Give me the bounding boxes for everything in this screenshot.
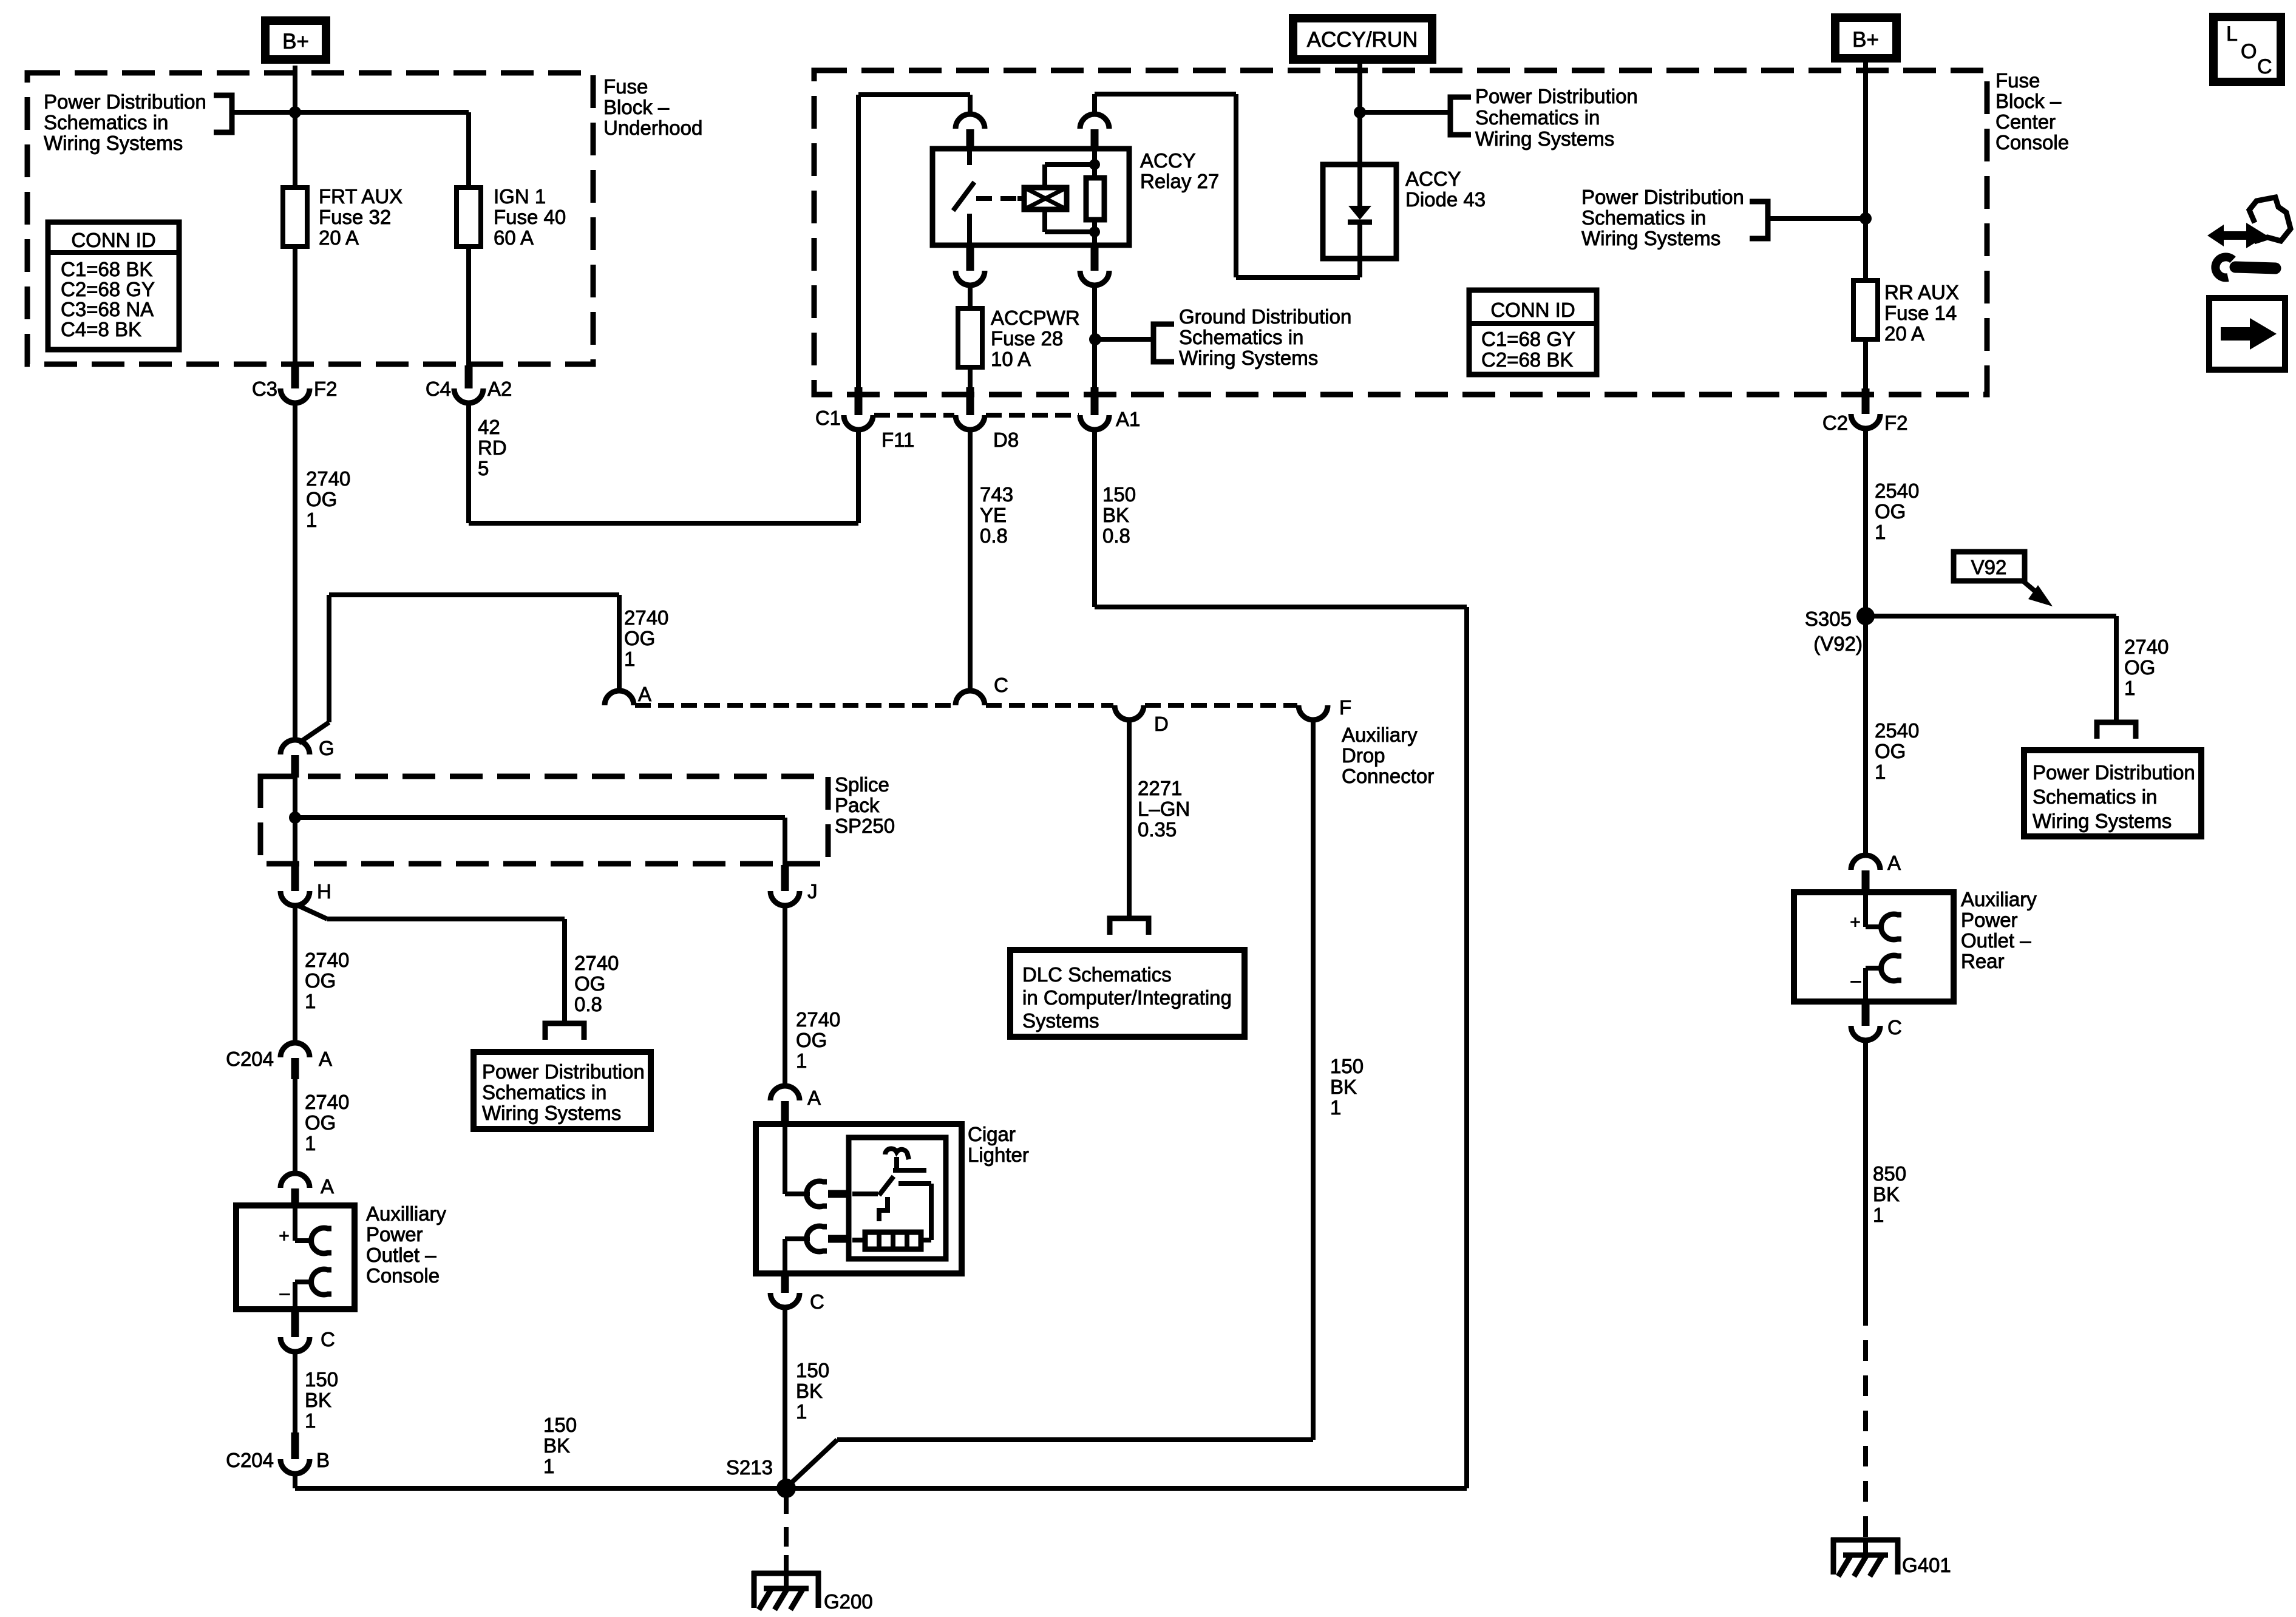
wire top horizontal to relay pin 1 <box>858 92 970 97</box>
splice pack SP250 dashed box <box>260 776 828 864</box>
wire through splice pack <box>293 778 297 866</box>
splice S305 (V92) <box>1856 607 1875 625</box>
svg-text:G: G <box>319 737 335 759</box>
svg-text:0.35: 0.35 <box>1138 818 1177 841</box>
svg-text:A: A <box>638 683 651 705</box>
svg-text:60 A: 60 A <box>494 226 534 249</box>
svg-text:1: 1 <box>624 648 635 670</box>
wire junction to FRT AUX fuse <box>293 112 297 188</box>
svg-text:0.8: 0.8 <box>980 524 1008 547</box>
svg-text:A: A <box>319 1048 332 1070</box>
svg-text:20 A: 20 A <box>1884 322 1924 345</box>
ground G401 <box>1831 1537 1900 1543</box>
svg-text:Auxiliary: Auxiliary <box>1961 888 2037 910</box>
svg-text:C204: C204 <box>226 1449 274 1471</box>
wire 850 BK down <box>1863 1040 1868 1305</box>
svg-text:0.8: 0.8 <box>574 993 602 1015</box>
wire ACCY/RUN down <box>1357 64 1362 164</box>
terminal to DLC <box>1110 918 1149 935</box>
svg-text:2740: 2740 <box>574 952 619 974</box>
svg-text:Schematics in: Schematics in <box>1179 326 1303 348</box>
svg-text:RD: RD <box>478 436 507 459</box>
svg-text:Auxilliary: Auxilliary <box>366 1202 447 1225</box>
svg-text:2740: 2740 <box>2124 636 2169 658</box>
console outlet minus terminal <box>295 1280 313 1284</box>
svg-text:BK: BK <box>1873 1183 1900 1205</box>
svg-text:C: C <box>994 674 1008 696</box>
relay bottom pins <box>966 245 974 271</box>
svg-text:1: 1 <box>1330 1096 1341 1119</box>
svg-text:2540: 2540 <box>1875 719 1919 742</box>
svg-text:C4: C4 <box>426 378 451 400</box>
svg-text:Power: Power <box>366 1223 423 1246</box>
svg-text:Fuse: Fuse <box>1995 69 2040 92</box>
svg-text:Power Distribution: Power Distribution <box>44 90 206 113</box>
svg-text:Fuse: Fuse <box>603 75 648 98</box>
svg-text:A: A <box>321 1175 334 1198</box>
conn id table center console <box>1469 290 1597 375</box>
svg-text:Rear: Rear <box>1961 950 2005 972</box>
svg-text:L: L <box>2226 22 2238 46</box>
wire 2740 OG down from C3 <box>293 403 297 741</box>
svg-text:Center: Center <box>1995 110 2056 133</box>
svg-text:Wiring Systems: Wiring Systems <box>482 1102 621 1124</box>
relay resistor <box>1086 178 1104 220</box>
power symbol B+ (left) <box>265 21 326 59</box>
svg-text:C: C <box>2257 55 2272 78</box>
connector D aux drop <box>1115 705 1144 720</box>
svg-text:1: 1 <box>543 1455 554 1477</box>
svg-text:F2: F2 <box>1884 412 1908 434</box>
wire IGN1 fuse to connector C4 <box>466 246 471 368</box>
wire D to DLC <box>1127 720 1132 918</box>
svg-text:Power: Power <box>1961 909 2018 931</box>
svg-text:Cigar: Cigar <box>968 1123 1016 1145</box>
connector G <box>280 740 310 754</box>
svg-text:Fuse 14: Fuse 14 <box>1884 302 1957 324</box>
svg-text:FRT AUX: FRT AUX <box>319 185 402 208</box>
svg-text:BK: BK <box>1330 1076 1357 1098</box>
aux power outlet console box <box>236 1205 355 1309</box>
connector F aux drop <box>1299 705 1328 720</box>
svg-text:O: O <box>2241 40 2257 63</box>
relay pin top left connector <box>968 95 973 116</box>
rear outlet plus terminal <box>1863 892 1868 927</box>
svg-text:2271: 2271 <box>1138 777 1182 799</box>
dotted aux drop line <box>635 703 954 708</box>
relay switch <box>967 149 972 165</box>
connector H <box>291 865 299 891</box>
svg-text:B+: B+ <box>1852 28 1879 52</box>
cigar switch blade <box>852 1192 878 1196</box>
svg-text:C2=68 GY: C2=68 GY <box>61 278 155 300</box>
power symbol B+ (right) <box>1835 18 1897 58</box>
wire 150 BK from A1 to F column <box>1092 430 1097 607</box>
svg-text:S213: S213 <box>726 1456 773 1479</box>
wire C204 B to S213 <box>293 1474 297 1488</box>
svg-text:1: 1 <box>1875 521 1886 543</box>
svg-text:2740: 2740 <box>305 949 349 971</box>
wire S305 down to rear outlet <box>1863 616 1868 856</box>
connector C204 A <box>280 1043 310 1057</box>
wire relay right pin top to diode loop <box>1092 94 1097 116</box>
svg-text:OG: OG <box>2124 656 2155 679</box>
wire F down to S213 branch <box>1311 720 1316 1440</box>
svg-text:OG: OG <box>624 627 655 649</box>
connector A cigar lighter <box>770 1086 800 1100</box>
svg-text:Power Distribution: Power Distribution <box>1581 186 1744 208</box>
svg-text:–: – <box>1851 971 1861 991</box>
bracket power distribution (top right) <box>1450 97 1471 135</box>
svg-text:C4=8 BK: C4=8 BK <box>61 318 141 341</box>
diode symbol <box>1357 164 1362 206</box>
connector J <box>781 865 789 891</box>
connector A aux drop <box>605 691 634 705</box>
svg-text:150: 150 <box>543 1414 577 1436</box>
svg-text:Wiring Systems: Wiring Systems <box>2033 810 2172 832</box>
svg-text:Block –: Block – <box>1995 90 2062 112</box>
svg-text:0.8: 0.8 <box>1102 524 1130 547</box>
svg-text:S305: S305 <box>1805 608 1852 630</box>
svg-text:1: 1 <box>305 1132 316 1154</box>
icon LOC legend box <box>2213 17 2281 82</box>
svg-text:+: + <box>279 1226 290 1246</box>
ground G200 <box>752 1571 821 1576</box>
svg-text:1: 1 <box>306 509 317 531</box>
terminal to power distribution (bottom left) <box>545 1023 584 1040</box>
svg-text:C1=68 GY: C1=68 GY <box>1481 328 1575 350</box>
svg-text:A2: A2 <box>487 378 512 400</box>
svg-text:in Computer/Integrating: in Computer/Integrating <box>1022 986 1232 1009</box>
svg-text:G401: G401 <box>1902 1554 1951 1576</box>
svg-text:C: C <box>810 1290 824 1313</box>
cigar inner element box <box>849 1137 946 1259</box>
wire S305 right branch 2740 OG <box>1866 614 2116 619</box>
V92 arrow <box>2023 581 2038 594</box>
svg-text:Fuse 32: Fuse 32 <box>319 206 391 228</box>
fuse RR AUX Fuse 14 <box>1853 280 1878 339</box>
svg-text:Wiring Systems: Wiring Systems <box>1179 347 1318 369</box>
wire cigar C to S213 <box>783 1307 787 1488</box>
svg-text:42: 42 <box>478 416 500 438</box>
wire G diagonal branch <box>299 722 329 743</box>
svg-text:SP250: SP250 <box>835 815 895 837</box>
bracket power distribution (right mid) <box>1750 202 1768 239</box>
box Power Distribution Schematics in Wiring Systems (bottom left) <box>474 1052 651 1129</box>
svg-text:Fuse 28: Fuse 28 <box>991 327 1063 350</box>
wire H down to C204 <box>293 904 297 1044</box>
fuse IGN 1 Fuse 40 <box>457 188 481 246</box>
svg-text:Console: Console <box>1995 131 2069 154</box>
connector A1 <box>1091 387 1099 415</box>
svg-text:C1: C1 <box>815 407 841 429</box>
cigar heater coil curl <box>885 1148 909 1159</box>
cigar right circuit <box>898 1181 931 1186</box>
svg-text:2740: 2740 <box>306 467 350 490</box>
cigar heating resistor <box>865 1232 921 1249</box>
svg-text:10 A: 10 A <box>991 348 1031 370</box>
relay coil bottom wire <box>1042 209 1047 232</box>
svg-text:Wiring Systems: Wiring Systems <box>1581 227 1720 249</box>
svg-text:BK: BK <box>1102 504 1129 526</box>
svg-text:RR AUX: RR AUX <box>1884 281 1959 303</box>
console outlet plus terminal <box>293 1208 297 1241</box>
wire FRT AUX fuse to connector C3 <box>293 246 297 368</box>
svg-text:A: A <box>1887 852 1901 874</box>
terminal to power distribution (right) <box>2097 722 2136 739</box>
svg-text:OG: OG <box>1875 500 1906 523</box>
svg-text:2740: 2740 <box>305 1091 349 1113</box>
wire J to cigar lighter <box>783 906 787 1087</box>
svg-text:Connector: Connector <box>1342 765 1434 787</box>
svg-text:Schematics in: Schematics in <box>1475 106 1600 129</box>
callout box V92 <box>1954 552 2025 581</box>
relay coil <box>1024 188 1067 209</box>
relay actuator dashed link <box>976 196 1017 201</box>
connector D8 <box>966 387 974 415</box>
svg-text:Console: Console <box>366 1264 440 1287</box>
svg-text:C3=68 NA: C3=68 NA <box>61 298 154 320</box>
fuse block center console dashed box <box>814 70 1987 395</box>
svg-text:B+: B+ <box>282 30 309 53</box>
svg-text:ACCY: ACCY <box>1405 168 1461 190</box>
connector C rear outlet <box>1862 1002 1870 1026</box>
svg-text:150: 150 <box>305 1368 338 1391</box>
svg-text:BK: BK <box>543 1434 570 1457</box>
wire H diagonal to power distribution branch <box>297 905 327 919</box>
svg-text:F: F <box>1339 696 1351 719</box>
svg-text:C: C <box>1887 1016 1902 1039</box>
relay coil top wire <box>1042 164 1047 188</box>
box DLC Schematics <box>1010 950 1245 1037</box>
svg-text:IGN 1: IGN 1 <box>494 185 546 208</box>
rear outlet minus terminal <box>1866 966 1883 971</box>
junction ground distribution branch <box>1089 333 1101 345</box>
svg-text:OG: OG <box>1875 740 1906 762</box>
svg-text:G200: G200 <box>824 1590 873 1613</box>
wire 2540 OG down to S305 <box>1863 429 1868 616</box>
svg-text:1: 1 <box>305 1409 316 1432</box>
bracket to Power Distribution Schematics (left top) <box>214 95 232 132</box>
svg-text:B: B <box>316 1449 330 1471</box>
svg-text:+: + <box>1850 912 1861 932</box>
svg-text:150: 150 <box>1330 1055 1364 1077</box>
svg-text:Underhood: Underhood <box>603 117 702 139</box>
splice S213 <box>776 1479 796 1498</box>
svg-text:C204: C204 <box>226 1048 274 1070</box>
dotted connector line C1-A1 <box>874 413 954 418</box>
svg-text:BK: BK <box>796 1380 823 1402</box>
svg-text:1: 1 <box>2124 677 2135 699</box>
junction splice <box>289 812 301 824</box>
connector C4 A2 <box>465 365 473 388</box>
svg-text:Ground Distribution: Ground Distribution <box>1179 305 1351 328</box>
svg-text:Power Distribution: Power Distribution <box>1475 85 1638 107</box>
svg-text:1: 1 <box>305 990 316 1012</box>
svg-text:Auxiliary: Auxiliary <box>1342 724 1418 746</box>
svg-text:CONN ID: CONN ID <box>71 229 155 251</box>
svg-text:Pack: Pack <box>835 794 880 816</box>
junction ACCY/RUN branch <box>1354 106 1366 118</box>
junction right B+ branch <box>1860 212 1872 225</box>
svg-text:Fuse 40: Fuse 40 <box>494 206 566 228</box>
svg-text:C1=68 BK: C1=68 BK <box>61 258 152 280</box>
svg-text:OG: OG <box>305 1111 336 1134</box>
svg-text:A1: A1 <box>1116 408 1140 430</box>
svg-text:A: A <box>807 1086 821 1109</box>
connector A rear outlet <box>1851 855 1880 870</box>
svg-text:Power Distribution: Power Distribution <box>482 1060 645 1083</box>
svg-text:BK: BK <box>305 1389 331 1411</box>
svg-text:(V92): (V92) <box>1813 632 1863 655</box>
svg-text:C: C <box>321 1328 335 1351</box>
fuse FRT AUX Fuse 32 <box>283 188 307 246</box>
svg-text:F11: F11 <box>881 429 914 451</box>
svg-text:Lighter: Lighter <box>968 1144 1029 1166</box>
svg-text:F2: F2 <box>314 378 338 400</box>
svg-text:Drop: Drop <box>1342 744 1385 767</box>
svg-text:Schematics in: Schematics in <box>44 111 168 134</box>
svg-text:OG: OG <box>306 488 337 510</box>
wire relay to ACCPWR fuse <box>968 285 973 308</box>
svg-text:Relay 27: Relay 27 <box>1140 170 1219 192</box>
svg-text:V92: V92 <box>1971 556 2007 578</box>
connector C3 F2 <box>291 365 299 388</box>
wire RR AUX fuse to C2 <box>1863 339 1868 393</box>
dashed wire to G401 <box>1863 1305 1868 1542</box>
wire bracket to junction <box>232 110 295 115</box>
connector C aux drop <box>956 691 985 705</box>
svg-text:DLC Schematics: DLC Schematics <box>1022 963 1172 986</box>
svg-text:Block –: Block – <box>603 96 670 118</box>
svg-text:Wiring Systems: Wiring Systems <box>44 132 183 154</box>
svg-text:1: 1 <box>796 1049 807 1072</box>
svg-text:Schematics in: Schematics in <box>1581 206 1706 229</box>
svg-text:1: 1 <box>1873 1204 1884 1226</box>
svg-text:–: – <box>280 1283 290 1303</box>
svg-text:OG: OG <box>796 1029 827 1051</box>
svg-text:Schematics in: Schematics in <box>2033 785 2157 808</box>
wire splice to J <box>295 815 785 820</box>
icon forward arrow box <box>2209 298 2285 370</box>
wire diode bottom to loop <box>1357 259 1362 277</box>
wire B+ right down <box>1863 63 1868 280</box>
wire 150 BK console down <box>293 1352 297 1434</box>
relay pin line right <box>1092 149 1097 178</box>
wire C1 column inside box <box>856 95 861 388</box>
svg-text:C2=68 BK: C2=68 BK <box>1481 348 1573 371</box>
box Power Distribution Schematics in Wiring Systems (right) <box>2024 750 2201 836</box>
aux power outlet rear box <box>1794 892 1954 1002</box>
svg-text:C3: C3 <box>252 378 277 400</box>
bracket ground distribution <box>1153 324 1174 362</box>
svg-text:L–GN: L–GN <box>1138 798 1190 820</box>
svg-text:Splice: Splice <box>835 773 889 796</box>
svg-text:2740: 2740 <box>624 606 668 629</box>
wire C204 to outlet A <box>293 1079 297 1175</box>
svg-text:H: H <box>317 880 331 903</box>
wire 42 RD from C4 to C1 column <box>466 403 471 523</box>
svg-text:ACCPWR: ACCPWR <box>991 307 1080 329</box>
svg-text:1: 1 <box>1875 761 1886 783</box>
svg-text:OG: OG <box>305 969 336 992</box>
junction B+ branch <box>289 106 301 118</box>
connector C1 F11 <box>855 387 863 415</box>
svg-text:150: 150 <box>1102 483 1136 506</box>
svg-text:Diode 43: Diode 43 <box>1405 188 1486 211</box>
svg-text:C2: C2 <box>1822 412 1848 434</box>
wire 743 YE from D8 to C <box>968 430 973 692</box>
svg-text:850: 850 <box>1873 1162 1906 1185</box>
svg-text:CONN ID: CONN ID <box>1490 299 1575 321</box>
fuse ACCPWR Fuse 28 <box>958 308 982 367</box>
wire ACCPWR fuse to D8 <box>968 367 973 392</box>
svg-text:Power Distribution: Power Distribution <box>2033 761 2195 784</box>
wire right column into S213 line <box>786 1486 1467 1491</box>
conn id table underhood <box>48 222 179 350</box>
svg-text:Systems: Systems <box>1022 1009 1099 1032</box>
wire B+ left down to junction <box>293 66 297 112</box>
svg-text:2540: 2540 <box>1875 480 1919 502</box>
connector C204 B <box>291 1432 299 1459</box>
cigar minus terminal <box>785 1236 810 1241</box>
svg-text:743: 743 <box>980 483 1013 506</box>
cigar plus terminal <box>783 1124 787 1194</box>
svg-text:Schematics in: Schematics in <box>482 1081 606 1103</box>
cigar heater T bar <box>894 1157 899 1170</box>
dashed wire to G200 <box>784 1494 789 1555</box>
svg-text:5: 5 <box>478 457 489 480</box>
relay ACCY Relay 27 box <box>932 149 1129 245</box>
wire junction right to IGN1 branch <box>295 110 469 115</box>
svg-text:20 A: 20 A <box>319 226 359 249</box>
svg-text:150: 150 <box>796 1359 829 1381</box>
svg-text:ACCY/RUN: ACCY/RUN <box>1307 28 1418 52</box>
connector C2 F2 <box>1862 388 1870 414</box>
svg-text:OG: OG <box>574 972 605 995</box>
icon connector-view with arrow and wrench <box>2207 223 2267 248</box>
connector C console outlet <box>291 1309 299 1337</box>
svg-text:J: J <box>807 880 818 903</box>
diode ACCY Diode 43 box <box>1323 164 1396 259</box>
wire relay pin to A1 <box>1092 285 1097 392</box>
svg-text:YE: YE <box>980 504 1007 526</box>
svg-text:Outlet –: Outlet – <box>366 1244 436 1266</box>
cigar lighter box <box>756 1124 962 1273</box>
connector C cigar lighter <box>781 1273 789 1293</box>
svg-text:D8: D8 <box>993 429 1019 451</box>
power symbol ACCY/RUN <box>1293 18 1432 59</box>
svg-text:1: 1 <box>796 1400 807 1423</box>
svg-text:Outlet –: Outlet – <box>1961 929 2031 952</box>
svg-text:Wiring Systems: Wiring Systems <box>1475 127 1614 150</box>
connector A console outlet <box>280 1173 310 1188</box>
fuse block underhood dashed box <box>27 73 593 364</box>
svg-text:D: D <box>1154 713 1169 735</box>
svg-text:ACCY: ACCY <box>1140 149 1196 172</box>
svg-text:2740: 2740 <box>796 1008 840 1031</box>
